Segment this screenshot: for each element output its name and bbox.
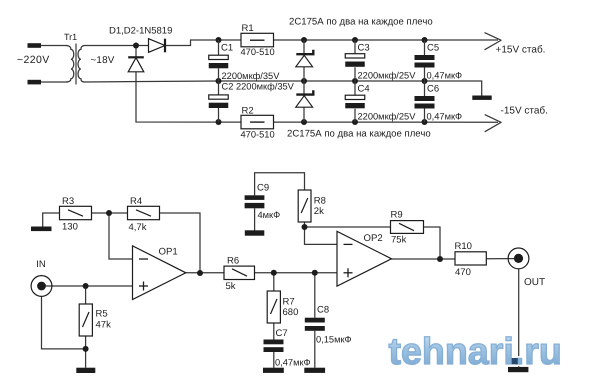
- ground at R3 left: [31, 227, 52, 232]
- capacitor C5: [424, 40, 426, 55]
- svg-text:OUT: OUT: [524, 277, 545, 288]
- svg-text:470: 470: [455, 267, 471, 278]
- junction -rail at C4: [352, 119, 358, 125]
- svg-text:0,15мкФ: 0,15мкФ: [316, 335, 352, 345]
- wire zener string vertical: [303, 40, 305, 122]
- capacitor C1: [218, 40, 220, 55]
- svg-text:.: .: [510, 330, 520, 372]
- resistor R4: [128, 206, 160, 219]
- svg-text:0,47мкФ: 0,47мкФ: [427, 112, 463, 122]
- junction R5 bottom node: [83, 346, 89, 352]
- junction -rail at C2/R2: [216, 119, 222, 125]
- wire R3 to R4: [92, 212, 128, 214]
- svg-text:0,47мкФ: 0,47мкФ: [427, 71, 463, 81]
- junction -rail at C6: [422, 119, 428, 125]
- svg-text:R6: R6: [227, 256, 239, 267]
- wire R7 bottom lead to C7: [273, 323, 275, 340]
- svg-text:4,7k: 4,7k: [129, 222, 147, 233]
- svg-text:4мкФ: 4мкФ: [258, 210, 281, 220]
- wire R6 to OP2 non-inverting input: [255, 272, 338, 274]
- junction secondary-top/D1/D2 node: [133, 43, 139, 49]
- svg-text:2200мкф/25V: 2200мкф/25V: [358, 71, 417, 81]
- svg-text:tehnari.ru: tehnari.ru: [389, 330, 562, 372]
- svg-text:2С175А по два на каждое плечо: 2С175А по два на каждое плечо: [289, 17, 433, 28]
- wire C9 top to R8 top: [255, 173, 305, 196]
- svg-text:0,47мкФ: 0,47мкФ: [275, 358, 311, 368]
- wire OUT shell to ground: [518, 269, 520, 367]
- op-amp OP1: [133, 246, 186, 300]
- wire R5 top lead: [85, 286, 87, 304]
- wire OP2 output to R10: [391, 258, 454, 260]
- ground under C9: [245, 230, 264, 235]
- capacitor C4: [354, 81, 356, 95]
- wire C8 to ground: [314, 331, 316, 368]
- wire C8 top lead: [314, 273, 316, 318]
- svg-text:R7: R7: [283, 297, 295, 308]
- svg-text:470-510: 470-510: [241, 130, 275, 140]
- wire R7 top lead: [273, 273, 275, 291]
- svg-text:Tr1: Tr1: [64, 32, 77, 42]
- junction -rail at zener string: [301, 119, 307, 125]
- diode D2: [128, 57, 144, 72]
- resistor R8: [298, 190, 311, 222]
- wire R8 bottom node to OP2 inverting input: [305, 222, 338, 244]
- wire OP1 output to R6: [186, 272, 225, 274]
- arrow +15V output: [485, 33, 502, 50]
- capacitor C3: [354, 40, 356, 54]
- svg-text:R2: R2: [242, 106, 254, 117]
- junction +rail at C5: [422, 37, 428, 43]
- svg-text:D1,D2-1N5819: D1,D2-1N5819: [109, 26, 172, 37]
- junction middle rail at C3/C4: [352, 78, 358, 84]
- connector IN jack: [31, 276, 52, 297]
- wire C9 bottom to ground: [254, 208, 256, 230]
- junction middle rail at C5/C6: [422, 78, 428, 84]
- wire R5 bottom lead to ground: [85, 336, 87, 368]
- resistor R3: [60, 206, 92, 219]
- junction +rail at C3: [352, 37, 358, 43]
- junction R3/R4 node: [106, 210, 112, 216]
- ground under C7: [263, 368, 284, 373]
- junction OP1 output node: [197, 270, 203, 276]
- junction middle rail at C1/C2: [216, 78, 222, 84]
- wire IN center to OP1 non-inverting input: [42, 285, 133, 287]
- svg-text:130: 130: [62, 222, 78, 233]
- svg-text:2С175А по два на каждое плечо: 2С175А по два на каждое плечо: [287, 129, 431, 140]
- zener diode 2C175A lower: [296, 90, 314, 107]
- capacitor C6: [424, 81, 426, 96]
- junction R6/C8 node at OP2 +: [312, 270, 318, 276]
- terminal 220V input bottom: [28, 80, 42, 85]
- arrow -15V output: [485, 115, 502, 132]
- svg-text:2200мкф/35V: 2200мкф/35V: [222, 71, 281, 81]
- wire +rail from D1 cathode with jog to +15V arrow: [165, 40, 499, 46]
- wire middle rail from secondary bottom to ground drop: [84, 81, 482, 96]
- junction middle rail at zeners: [301, 78, 307, 84]
- wire 220V top lead: [41, 45, 68, 47]
- svg-text:C9: C9: [257, 183, 269, 194]
- svg-text:IN: IN: [36, 259, 46, 270]
- svg-text:C4: C4: [358, 84, 370, 95]
- capacitor C8: [305, 318, 325, 323]
- wire R4 to OP1 output feedback: [160, 213, 200, 273]
- capacitor C7: [264, 340, 284, 345]
- wire R9 right to OP2 output node: [424, 227, 441, 259]
- svg-text:680: 680: [283, 307, 299, 318]
- svg-text:C7: C7: [276, 328, 288, 339]
- ground power supply common: [472, 96, 491, 100]
- wire 220V bottom lead: [41, 81, 68, 83]
- capacitor C2: [218, 81, 220, 95]
- svg-text:~220V: ~220V: [17, 54, 50, 66]
- svg-text:C5: C5: [427, 43, 439, 54]
- capacitor C9: [245, 195, 265, 200]
- svg-text:C2 2200мкф/35V: C2 2200мкф/35V: [222, 82, 295, 92]
- diode D1: [149, 39, 166, 53]
- terminal 220V input top: [28, 43, 42, 48]
- svg-text:C6: C6: [427, 84, 439, 95]
- junction +rail at zener string: [301, 37, 307, 43]
- watermark tehnari.ru: [389, 330, 562, 372]
- wire R10 to OUT jack: [487, 258, 519, 260]
- ground under C8: [304, 368, 325, 373]
- svg-text:R8: R8: [314, 196, 326, 207]
- svg-text:C3: C3: [358, 43, 370, 54]
- resistor R6: [224, 266, 255, 279]
- svg-text:R10: R10: [455, 241, 472, 252]
- svg-text:~18V: ~18V: [91, 55, 115, 66]
- svg-text:5k: 5k: [226, 281, 236, 292]
- wire IN shell down and to R5 bottom node: [42, 297, 86, 349]
- zener diode 2C175A upper: [296, 50, 314, 67]
- svg-text:-15V стаб.: -15V стаб.: [501, 106, 548, 117]
- wire OP1 inverting input from R3/R4 node: [109, 213, 133, 259]
- junction R8 bottom node: [302, 224, 308, 230]
- svg-text:C8: C8: [317, 305, 329, 316]
- junction R6/R7 node: [271, 270, 277, 276]
- svg-text:R9: R9: [391, 210, 403, 221]
- ground at IN/R5: [76, 368, 95, 373]
- resistor R5: [79, 304, 92, 336]
- resistor R2: [241, 115, 274, 129]
- svg-text:R4: R4: [130, 196, 142, 207]
- resistor R1: [241, 33, 274, 47]
- resistor R9: [391, 221, 424, 234]
- svg-text:47k: 47k: [96, 320, 112, 331]
- ground under OUT: [508, 367, 528, 372]
- junction IN to R5 top: [83, 283, 89, 289]
- svg-text:R5: R5: [96, 309, 108, 320]
- op-amp OP2: [337, 231, 392, 286]
- svg-text:OP1: OP1: [159, 247, 178, 258]
- resistor R10: [455, 252, 486, 265]
- wire C7 to ground: [273, 352, 275, 368]
- svg-text:R1: R1: [242, 23, 254, 34]
- svg-text:470-510: 470-510: [241, 47, 275, 57]
- wire secondary top to D1 anode: [84, 45, 150, 47]
- transformer Tr1: [66, 44, 84, 85]
- wire R3 left lead to ground: [43, 213, 60, 227]
- wire D2 anode to negative rail and -15V arrow: [136, 72, 498, 123]
- connector OUT jack: [508, 248, 529, 269]
- resistor R7: [267, 291, 280, 323]
- svg-text:75k: 75k: [391, 235, 407, 246]
- svg-text:2k: 2k: [314, 206, 324, 217]
- junction OP2 output node: [437, 256, 443, 262]
- svg-text:+15V стаб.: +15V стаб.: [496, 45, 546, 56]
- svg-text:R3: R3: [62, 196, 74, 207]
- wire D2 cathode drop from node: [135, 46, 137, 59]
- svg-text:OP2: OP2: [364, 233, 383, 244]
- svg-text:C1: C1: [221, 43, 233, 54]
- junction +rail at C1: [216, 37, 222, 43]
- svg-text:2200мкф/25V: 2200мкф/25V: [358, 112, 417, 122]
- wire R8 bottom node to R9 left: [305, 226, 391, 228]
